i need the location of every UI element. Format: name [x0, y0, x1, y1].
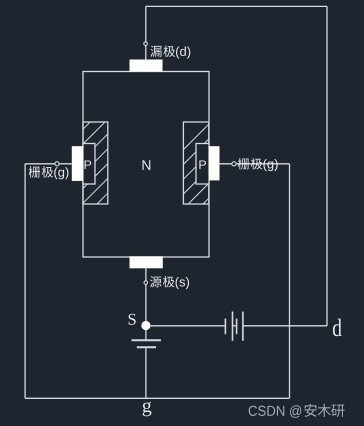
label S	[129, 314, 136, 325]
P region right (hatched box)	[183, 122, 208, 204]
label P (right)	[199, 160, 206, 169]
wire: left gate vertical down	[24, 164, 26, 398]
leader dot for drain label	[144, 42, 148, 46]
label drain 漏极(d)	[150, 45, 190, 58]
node S junction dot	[141, 321, 150, 330]
battery B2 long plate 2	[242, 312, 244, 341]
wire: battery B2 inter-cell segment	[233, 325, 237, 327]
drain electrode plate	[130, 60, 163, 72]
source electrode plate	[130, 256, 163, 268]
P region right label box	[196, 144, 209, 185]
wire: battery B1 to bottom bus	[145, 347, 147, 398]
battery B1 long plate	[132, 339, 161, 341]
leader dot right gate	[232, 162, 236, 166]
label gate right 栅极(g)	[238, 158, 278, 171]
battery B2 long plate 1	[232, 312, 234, 341]
wire: node S to battery B2	[146, 325, 226, 327]
label gate left 栅极(g)	[29, 166, 69, 179]
watermark CSDN @安木研	[249, 404, 345, 418]
leader dot for source label	[144, 281, 148, 285]
gate electrode plate left	[72, 146, 83, 181]
wire: bottom horizontal bus g	[25, 397, 289, 399]
wire: drain lead vertical	[145, 6, 147, 59]
wire: source lead from source electrode to node S	[145, 268, 147, 340]
N-channel semiconductor body outline	[83, 72, 209, 258]
label P (left)	[85, 160, 92, 169]
label terminal g	[143, 402, 152, 417]
wire: battery B2 to right vertical run	[243, 325, 327, 327]
wire: right vertical drain run to d	[326, 6, 328, 325]
gate electrode plate right	[209, 146, 220, 180]
label source 源极(s)	[150, 276, 189, 289]
leader dot left gate	[55, 162, 59, 166]
label N channel	[142, 160, 150, 170]
wire: top horizontal run	[146, 5, 327, 7]
P region left (hatched box)	[83, 122, 108, 204]
label terminal d	[333, 319, 342, 337]
battery B2 short plate 2	[236, 319, 238, 335]
battery B2 short plate 1	[224, 319, 226, 335]
wire: right gate horizontal	[220, 163, 290, 165]
P region left label box	[83, 144, 95, 185]
wire: right gate vertical down	[289, 164, 291, 398]
battery B1 short plate	[137, 346, 156, 348]
wire: left gate horizontal	[25, 163, 72, 165]
